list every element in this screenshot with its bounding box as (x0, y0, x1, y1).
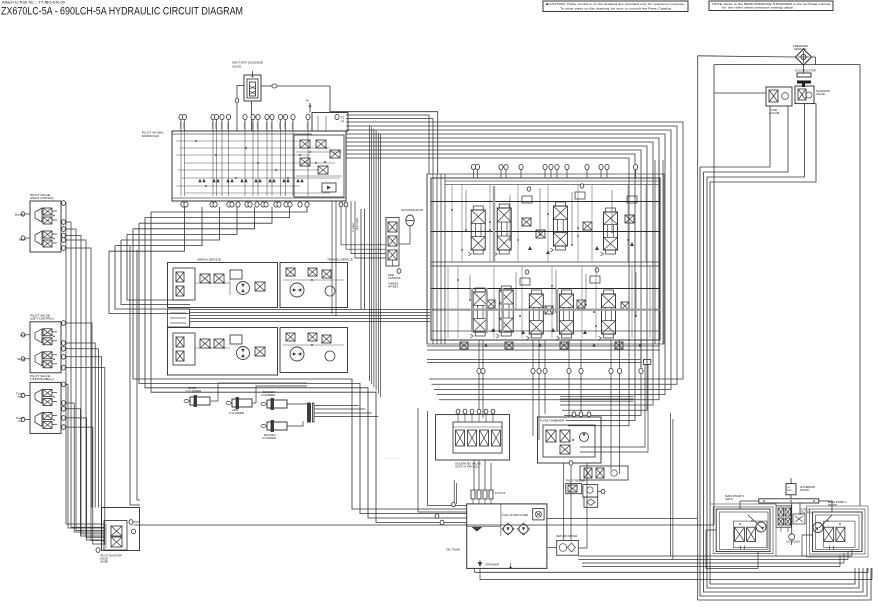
return filter box (547, 540, 578, 555)
travel motor block 2 (280, 328, 348, 373)
svg-text:Ps: Ps (306, 100, 310, 103)
svg-text:(LEFT): (LEFT) (725, 498, 733, 501)
svg-text:to valve: to valve (351, 223, 355, 232)
svg-text:CYLINDER: CYLINDER (261, 393, 275, 397)
svg-text:CYLINDER: CYLINDER (262, 436, 276, 440)
ec sensor box (786, 478, 815, 495)
signal manifold right sub-block (294, 135, 344, 197)
bus manifold to right side corners (346, 122, 683, 426)
svg-text:for the relief valve pressure: for the relief valve pressure setting va… (722, 6, 794, 10)
svg-text:SEN: SEN (787, 490, 792, 492)
svg-text:VALVE: VALVE (816, 93, 825, 96)
cylinder wires left (211, 383, 307, 426)
extra horizontals below valve (560, 396, 634, 401)
swing motor block 1 (168, 263, 278, 308)
signal manifold internal passages (176, 131, 340, 196)
staircase manifold to left bundle (109, 207, 307, 251)
main valve bottom ports (477, 340, 643, 374)
coupling circle (786, 534, 800, 544)
spool aux (599, 290, 616, 340)
wire connector to valve top (277, 86, 438, 174)
svg-text:UNIT (4 SPOOL): UNIT (4 SPOOL) (455, 465, 479, 469)
bucket cylinder label (261, 390, 275, 397)
pilot shutoff ports (96, 520, 140, 553)
arm cylinder label (229, 408, 244, 415)
spool bucket (550, 202, 567, 252)
svg-text:CYLINDER: CYLINDER (186, 389, 201, 393)
far right line (714, 65, 860, 506)
opt valve block label (540, 420, 564, 423)
svg-text:ACCUM.: ACCUM. (769, 112, 780, 115)
svg-text:right: right (18, 395, 23, 399)
opt valve block (538, 412, 602, 463)
row1 check valves (489, 184, 637, 254)
vertical pair center (351, 209, 365, 309)
wire solenoid down to manifold (235, 85, 251, 130)
svg-text:ACCUMULATOR: ACCUMULATOR (401, 209, 423, 212)
main pump 1 label (828, 501, 848, 507)
wire solenoid to connector (261, 84, 277, 88)
right bus verticals (698, 56, 871, 600)
signal manifold extension box (306, 100, 348, 132)
svg-text:Swing: Swing (17, 357, 26, 361)
svg-text:MANIFOLD: MANIFOLD (142, 134, 159, 138)
spool boom2 (526, 290, 543, 340)
row of small rects above tank (471, 490, 506, 504)
pilot shutoff label (100, 555, 123, 564)
spare cylinder label (262, 433, 276, 440)
spool travel-r (601, 208, 618, 256)
accumulator center label (401, 209, 423, 212)
wires blocks to tank area (474, 460, 587, 548)
signal manifold bottom ports (181, 201, 309, 207)
wires manifold to valve top-left (346, 115, 433, 174)
pilot B right ports (62, 321, 66, 370)
spool arm1 (494, 204, 511, 256)
cylinder wires right (314, 406, 467, 513)
ride control label (388, 274, 402, 289)
svg-text:OIL TANK: OIL TANK (446, 548, 460, 552)
svg-text:TRAVEL DEVICE: TRAVEL DEVICE (327, 258, 353, 262)
signal manifold label (142, 131, 165, 139)
svg-text:ACCUMULATOR: ACCUMULATOR (795, 70, 816, 73)
boom cylinder (184, 396, 210, 407)
spare cylinder (261, 421, 287, 432)
tank left ports (435, 514, 444, 525)
svg-text:CYLINDER: CYLINDER (229, 411, 244, 415)
row2 check valves (467, 268, 629, 334)
caution note box (543, 1, 688, 12)
travel motor block 1 (280, 263, 348, 308)
main valve internal lines (448, 185, 650, 339)
swing motor block 2 (168, 328, 278, 376)
accumulator top label (795, 70, 816, 73)
svg-text:SWING DEVICE: SWING DEVICE (197, 258, 221, 262)
tank filter 1 (502, 523, 514, 535)
svg-text:P1 P2 P3: P1 P2 P3 (495, 492, 506, 495)
right solenoid box 1 (766, 87, 792, 115)
staircase down to cylinder bundle and tank (109, 212, 467, 523)
label travel left (16, 416, 24, 423)
svg-text:P2: P2 (341, 116, 345, 120)
air breather box (533, 509, 544, 520)
pump outer routing (706, 504, 868, 568)
tank top-left lines (452, 480, 457, 507)
svg-text:A1: A1 (341, 119, 345, 123)
main pump 2 label (725, 495, 745, 501)
label bucket (15, 213, 24, 217)
spool swing (470, 288, 487, 338)
svg-text:LEVER: LEVER (100, 561, 108, 564)
main valve right columns (655, 160, 663, 344)
wires below main valve (479, 374, 620, 474)
bottom bus lines (475, 549, 872, 580)
main valve left columns (427, 174, 445, 344)
signal manifold body (172, 131, 346, 201)
tank fluid triangle (471, 527, 482, 532)
label swing (17, 357, 26, 361)
pilot valve group bucket-boom (21, 193, 61, 252)
pump manifold bar (759, 499, 819, 503)
pilot A right ports (62, 201, 66, 251)
tank filter 2 (518, 523, 530, 535)
boom cylinder label (186, 386, 201, 393)
main valve top ports (471, 164, 637, 178)
svg-text:(RIGHT): (RIGHT) (828, 504, 838, 507)
accumulator bar (797, 73, 811, 87)
svg-text:Attach to Part No. : TTJBG-EN-: Attach to Part No. : TTJBG-EN-00 (2, 1, 65, 5)
return filter label (556, 535, 577, 538)
pilot cluster (566, 483, 605, 507)
pilot valve group arm-swing (21, 314, 61, 373)
note box (709, 1, 833, 11)
svg-text:(LEFT CONTROL): (LEFT CONTROL) (30, 317, 54, 321)
svg-text:CONTROL: CONTROL (388, 277, 402, 280)
spool boom1 (468, 206, 485, 256)
bundle outer pair (130, 246, 140, 505)
svg-text:FLOW COMBINER: FLOW COMBINER (540, 420, 564, 423)
oil tank body (467, 504, 547, 569)
connector box between motor blocks (168, 309, 190, 327)
svg-text:PILOT RELIEF: PILOT RELIEF (566, 480, 586, 483)
svg-text:Boom: Boom (19, 238, 27, 242)
main valve outer boundary (427, 174, 664, 344)
svg-text:MOTOR: MOTOR (800, 489, 809, 492)
spool arm2 (496, 286, 513, 338)
tank strainer (478, 560, 513, 569)
reducing valve box (569, 461, 628, 480)
label arm (20, 333, 26, 337)
svg-text:RETURN FILTER: RETURN FILTER (556, 535, 577, 538)
solenoid valve unit (244, 71, 261, 101)
wires manifold bottom right down (332, 201, 386, 316)
tank right line (547, 518, 697, 520)
solenoid manifold ports (456, 409, 495, 422)
svg-text:Bucket: Bucket (15, 213, 24, 217)
pressure sensor label (793, 45, 808, 51)
tiny route label (385, 456, 400, 459)
bundle down past motor bus (370, 125, 381, 397)
cushion valve box (386, 218, 401, 274)
spool travel-l (556, 290, 573, 340)
long pilot line (136, 524, 715, 526)
pilot cluster label (566, 480, 586, 483)
bus below main valve (427, 342, 660, 411)
signal manifold top ports (179, 114, 310, 131)
svg-text:......................: ...................... (385, 456, 400, 459)
svg-text:EC: EC (788, 487, 791, 489)
swing motor block label (197, 258, 221, 262)
solenoid manifold outer (436, 415, 510, 460)
solenoid valve unit label (232, 61, 264, 69)
main pump 2 group (716, 509, 770, 552)
right lower verticals (580, 411, 673, 560)
svg-text:VALVE: VALVE (232, 65, 241, 69)
label travel right (16, 392, 24, 399)
svg-text:COUPLING: COUPLING (786, 541, 800, 543)
arm cylinder (226, 398, 252, 409)
cylinder manifold bars (308, 403, 315, 422)
title main heading (1, 5, 243, 17)
mid horizontal bus (190, 310, 430, 322)
svg-text:Main relief: Main relief (355, 218, 359, 230)
pilot C right ports (62, 382, 66, 430)
regulator cluster (776, 506, 805, 532)
pilot shutoff outer (102, 508, 140, 551)
main pump 1 group (813, 512, 862, 552)
right solenoid box 2 (795, 86, 830, 104)
svg-text:STRAINER: STRAINER (485, 564, 499, 567)
svg-text:(RIGHT CONTROL): (RIGHT CONTROL) (30, 196, 54, 200)
signal manifold port labels (180, 122, 307, 129)
bucket cylinder (261, 399, 287, 410)
pump wires (740, 495, 832, 545)
svg-text:To order parts on the drawing,: To order parts on the drawing, be sure t… (560, 6, 672, 10)
svg-text:FULL FLOW FILTER: FULL FLOW FILTER (502, 514, 528, 517)
right top wires (698, 56, 816, 182)
solenoid manifold label (455, 462, 481, 469)
opt motor block label (327, 258, 353, 262)
svg-text:4P-B63: 4P-B63 (388, 286, 399, 289)
pilot B exit wires (66, 323, 105, 544)
port pair with label (335, 114, 345, 123)
svg-text:ZX670LC-5A - 690LCH-5A HYDRAUL: ZX670LC-5A - 690LCH-5A HYDRAULIC CIRCUIT… (1, 5, 243, 17)
main valve pressure rails (431, 186, 660, 332)
pressure sensor diamond (796, 49, 816, 65)
pilot C exit wires (66, 384, 105, 544)
regulator label (799, 510, 813, 515)
svg-text:left: left (19, 419, 23, 423)
svg-text:(TRAVEL): (TRAVEL) (30, 377, 54, 381)
svg-text:Arm: Arm (20, 333, 26, 337)
pilot shutoff inner (104, 521, 127, 551)
pilot valve group travel (21, 374, 61, 433)
label boom (19, 238, 27, 242)
accumulator center (399, 215, 414, 244)
oil tank label (446, 548, 460, 552)
pilot A exit wires (66, 203, 105, 541)
title part number line (2, 1, 65, 5)
solenoid manifold inner (453, 422, 502, 453)
tank filters label (502, 514, 528, 517)
